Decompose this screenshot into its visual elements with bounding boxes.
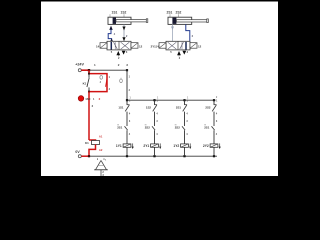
svg-text:1S0: 1S0 [85,97,91,101]
svg-text:K1: K1 [83,82,87,86]
svg-text:A2: A2 [99,148,103,152]
svg-text:12: 12 [139,45,143,49]
svg-text:1Y2: 1Y2 [173,144,179,148]
svg-text:1S2: 1S2 [146,105,152,109]
svg-text:2Y1: 2Y1 [143,144,149,148]
svg-text:A1: A1 [99,134,103,138]
svg-text:1S2: 1S2 [121,10,127,14]
svg-text:2S2: 2S2 [175,126,181,130]
svg-text:1Y1: 1Y1 [116,144,122,148]
svg-text:2S1: 2S1 [204,126,210,130]
svg-text:0V: 0V [75,150,80,154]
svg-text:14: 14 [96,45,100,49]
svg-text:2Y2: 2Y2 [203,144,209,148]
svg-text:+24V: +24V [75,62,84,66]
svg-text:1S1: 1S1 [118,105,124,109]
svg-text:2S1: 2S1 [176,105,182,109]
svg-text:2S2: 2S2 [205,105,211,109]
svg-text:1S1: 1S1 [112,10,118,14]
svg-text:2S2: 2S2 [145,126,151,130]
svg-text:14: 14 [156,44,159,48]
svg-text:K1: K1 [85,141,89,145]
svg-text:2S2: 2S2 [176,10,182,14]
svg-text:12: 12 [198,45,202,49]
svg-text:2S1: 2S1 [117,126,123,130]
svg-text:2S1: 2S1 [167,10,173,14]
